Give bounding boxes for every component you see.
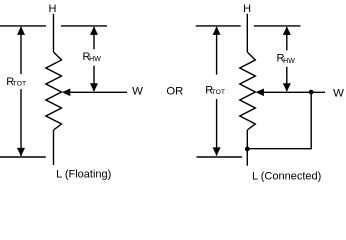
svg-text:H: H <box>243 3 251 15</box>
svg-text:L (Floating): L (Floating) <box>56 169 111 181</box>
svg-text:H: H <box>49 3 57 15</box>
svg-text:W: W <box>333 87 344 99</box>
svg-text:W: W <box>132 85 143 97</box>
svg-text:L (Connected): L (Connected) <box>252 170 321 182</box>
svg-text:OR: OR <box>166 86 183 98</box>
